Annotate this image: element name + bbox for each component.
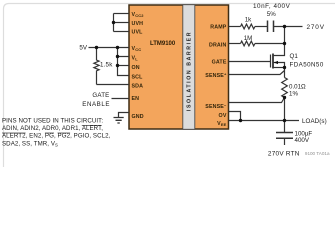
node sense resistor bottom bbox=[283, 96, 286, 99]
transistor Q1 source stub bbox=[273, 67, 285, 69]
svg-text:FDA50N50: FDA50N50 bbox=[290, 62, 324, 69]
svg-text:PINS NOT USED IN THIS CIRCUIT:: PINS NOT USED IN THIS CIRCUIT: bbox=[2, 118, 103, 125]
wire sense resistor to load bbox=[284, 98, 286, 121]
wire VEE to load bbox=[229, 120, 300, 122]
svg-text:5%: 5% bbox=[267, 11, 276, 18]
wire OV jog bbox=[229, 112, 241, 121]
node VL bbox=[116, 55, 119, 58]
node OV VEE tie bbox=[239, 119, 242, 122]
svg-text:1k: 1k bbox=[245, 16, 252, 23]
node load junction bbox=[283, 119, 286, 122]
wire load to cap bbox=[284, 121, 286, 133]
svg-text:VCC: VCC bbox=[132, 46, 142, 52]
wire SENSE- bbox=[229, 98, 285, 103]
wire EN gate enable bbox=[112, 98, 130, 100]
svg-text:DRAIN: DRAIN bbox=[209, 42, 227, 48]
wire UVH stub bbox=[114, 22, 130, 24]
svg-text:270V: 270V bbox=[307, 24, 325, 31]
wire UVL stub bbox=[114, 31, 130, 33]
svg-text:10nF, 400V: 10nF, 400V bbox=[253, 3, 291, 10]
svg-text:VEE: VEE bbox=[217, 121, 227, 127]
wire UV tie vertical bbox=[113, 14, 115, 32]
wire GND bbox=[119, 113, 130, 118]
wire source to sense resistor bbox=[284, 68, 286, 78]
wire SENSE+ bbox=[229, 71, 285, 75]
capacitor C 100uF bbox=[276, 133, 293, 139]
wire ON stub bbox=[118, 65, 130, 67]
svg-text:OV: OV bbox=[219, 113, 227, 119]
svg-text:GATE: GATE bbox=[92, 92, 109, 99]
wire cap to 270V RTN bbox=[284, 138, 286, 145]
svg-text:400V: 400V bbox=[295, 137, 310, 144]
wire GATE bbox=[229, 61, 271, 63]
node DRAIN rail bbox=[283, 42, 286, 45]
svg-text:ENABLE: ENABLE bbox=[82, 101, 110, 108]
svg-text:SDA2, SS, TMR, VS: SDA2, SS, TMR, VS bbox=[2, 140, 58, 147]
wire VL stub bbox=[118, 48, 130, 66]
svg-text:SENSE−: SENSE− bbox=[205, 102, 227, 110]
svg-text:ISOLATION BARRIER: ISOLATION BARRIER bbox=[187, 31, 193, 111]
svg-text:VCC2: VCC2 bbox=[132, 12, 145, 18]
resistor R 1M bbox=[241, 41, 255, 46]
wire DRAIN bbox=[229, 43, 241, 45]
svg-text:UVL: UVL bbox=[132, 30, 144, 36]
svg-text:SENSE+: SENSE+ bbox=[205, 72, 227, 80]
note pins not used bbox=[2, 118, 111, 148]
svg-text:UVH: UVH bbox=[132, 21, 144, 27]
svg-text:LTM9100: LTM9100 bbox=[150, 41, 176, 47]
wire 270V rail top bbox=[273, 27, 285, 56]
svg-text:Q1: Q1 bbox=[290, 53, 299, 60]
wire RAMP bbox=[229, 26, 241, 28]
transistor Q1 gate bar bbox=[270, 55, 272, 68]
svg-text:VL: VL bbox=[132, 55, 139, 61]
svg-text:LOAD(s): LOAD(s) bbox=[302, 118, 327, 125]
page frame border bbox=[4, 4, 335, 168]
resistor R sense 0.01 bbox=[282, 78, 288, 98]
node UV tie bbox=[112, 21, 115, 24]
resistor R 1.5k bbox=[94, 48, 99, 85]
resistor R 1k bbox=[241, 24, 255, 29]
wire SDA from resistor bbox=[97, 84, 130, 86]
transistor Q1 body line bbox=[273, 63, 285, 68]
svg-text:GATE: GATE bbox=[212, 59, 227, 65]
svg-text:1.5k: 1.5k bbox=[100, 62, 113, 69]
node VCC rail bbox=[116, 46, 119, 49]
IC U1 LTM9100 body bbox=[129, 5, 229, 129]
wire cap to 270V bbox=[274, 26, 303, 28]
isolation barrier bbox=[183, 5, 195, 130]
wire 1M to rail bbox=[255, 43, 285, 45]
svg-text:1M: 1M bbox=[244, 35, 253, 42]
svg-text:SDA: SDA bbox=[132, 83, 144, 89]
svg-text:SCL: SCL bbox=[132, 74, 144, 80]
capacitor C 10nF bbox=[268, 21, 274, 33]
svg-text:GND: GND bbox=[132, 114, 144, 120]
svg-text:5V: 5V bbox=[79, 45, 87, 52]
svg-text:ALERT2, EN2, PG, PG2, PGIO, SC: ALERT2, EN2, PG, PG2, PGIO, SCL2, bbox=[2, 133, 111, 140]
wire RAMP to cap bbox=[255, 26, 268, 28]
ground bbox=[114, 118, 124, 124]
svg-text:270V RTN: 270V RTN bbox=[268, 150, 300, 157]
node 270V bbox=[283, 25, 286, 28]
wire SCL jog bbox=[118, 66, 130, 76]
wire 5V rail bbox=[89, 47, 130, 49]
svg-text:9100 TA01a: 9100 TA01a bbox=[305, 151, 330, 156]
transistor Q1 channel bar bbox=[272, 54, 274, 69]
node 5V resistor top bbox=[95, 46, 98, 49]
transistor Q1 body arrow bbox=[274, 61, 278, 64]
svg-text:1%: 1% bbox=[289, 91, 298, 98]
wire VCC2 stub bbox=[114, 13, 130, 15]
svg-text:EN: EN bbox=[132, 96, 140, 102]
svg-text:ADIN, ADIN2, ADR0, ADR1, ALERT: ADIN, ADIN2, ADR0, ADR1, ALERT, bbox=[2, 125, 103, 132]
node ON bbox=[116, 64, 119, 67]
svg-text:RAMP: RAMP bbox=[210, 24, 227, 30]
node source junction bbox=[283, 66, 286, 69]
svg-text:ON: ON bbox=[132, 65, 140, 71]
svg-text:0.01Ω: 0.01Ω bbox=[289, 83, 306, 90]
